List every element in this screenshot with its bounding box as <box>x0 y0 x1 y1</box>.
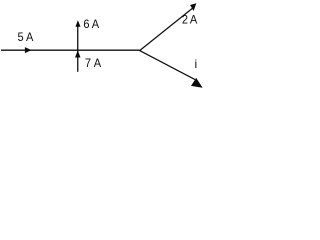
current arrow 2 A (arrowhead up-right) <box>190 3 196 11</box>
current arrow i (arrowhead down-right) <box>191 78 203 88</box>
current arrow 5 A (arrowhead on horizontal wire) <box>25 47 32 53</box>
wire: vertical branch conductor <box>77 26 79 72</box>
wire: lower-right branch to i <box>139 50 195 79</box>
wire: upper-right branch to 2 A <box>139 8 193 51</box>
svg-text:2A: 2A <box>182 14 198 26</box>
svg-text:6A: 6A <box>83 18 99 30</box>
svg-text:7A: 7A <box>85 58 102 70</box>
current arrow 6 A (up arrowhead above wire) <box>75 20 80 27</box>
current arrow 7 A (up arrowhead below horizontal wire) <box>75 50 81 57</box>
svg-text:i: i <box>195 57 198 71</box>
wire: main horizontal conductor <box>1 49 139 51</box>
svg-text:5A: 5A <box>17 32 33 44</box>
